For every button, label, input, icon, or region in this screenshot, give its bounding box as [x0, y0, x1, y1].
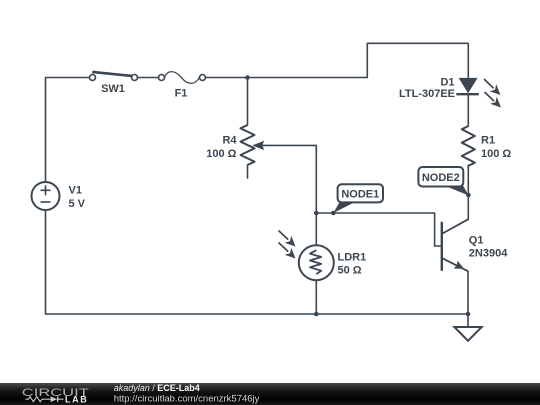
wire: R4 top lead — [247, 78, 249, 126]
junction dot at fuse/R4 — [245, 75, 250, 80]
wire: switch to fuse — [138, 77, 159, 79]
junction dot LDR bottom rail — [314, 312, 319, 317]
LED D1 emission arrow 1 — [484, 79, 501, 95]
resistor R1 — [462, 126, 475, 166]
emitter arrow of Q1 — [454, 261, 465, 269]
junction dot wiper/base wire — [314, 211, 319, 216]
wire: wiper to NODE1 column — [260, 145, 316, 213]
svg-text:Q1: Q1 — [469, 235, 484, 247]
svg-text:LDR1: LDR1 — [338, 252, 367, 264]
wire: R4 bottom dangling lead — [247, 165, 249, 178]
CircuitLab logo resistor-diode glyph — [25, 396, 63, 402]
wire: V1 bottom lead — [45, 210, 47, 314]
wire: bottom rail — [46, 313, 469, 315]
junction dot emitter/ground — [466, 312, 471, 317]
wiper arrow of R4 — [252, 141, 264, 150]
svg-text:akadylan / ECE-Lab4: akadylan / ECE-Lab4 — [114, 383, 200, 393]
LED D1 emission arrow 2 — [485, 92, 502, 108]
svg-text:LAB: LAB — [65, 394, 88, 404]
switch SW1 — [90, 72, 138, 81]
junction dot NODE2 anchor — [466, 193, 471, 198]
junction dot NODE1 anchor — [331, 211, 336, 216]
voltage source V1 — [32, 182, 60, 210]
svg-text:R4: R4 — [222, 135, 237, 147]
fuse F1 — [159, 72, 206, 84]
V1 plus sign — [41, 185, 51, 195]
V1 minus sign — [41, 201, 51, 203]
svg-text:100 Ω: 100 Ω — [206, 148, 236, 160]
svg-text:5 V: 5 V — [69, 198, 86, 210]
svg-text:NODE2: NODE2 — [422, 172, 460, 184]
photoresistor LDR1 — [299, 245, 334, 280]
LDR1 light arrow 2 — [279, 243, 296, 259]
svg-text:V1: V1 — [69, 185, 82, 197]
CircuitLab logo wordmark — [22, 387, 90, 405]
svg-text:2N3904: 2N3904 — [469, 248, 508, 260]
wire: NODE1 to Q1 base — [316, 213, 440, 246]
wire: LED cathode to R1 — [467, 95, 469, 127]
svg-text:50 Ω: 50 Ω — [338, 265, 362, 277]
node NODE1 flag — [333, 184, 383, 213]
potentiometer R4 — [241, 125, 255, 165]
svg-text:R1: R1 — [481, 135, 495, 147]
svg-text:D1: D1 — [440, 76, 454, 88]
svg-text:100 Ω: 100 Ω — [481, 148, 511, 160]
wire: fuse to top-right corner run — [206, 43, 469, 78]
LDR1 light arrow 1 — [279, 231, 296, 247]
wire: R1 bottom to collector node — [467, 165, 469, 220]
ground — [454, 314, 481, 341]
svg-text:SW1: SW1 — [101, 83, 125, 95]
svg-text:http://circuitlab.com/cnenzrk5: http://circuitlab.com/cnenzrk5746jy — [114, 394, 260, 405]
svg-text:F1: F1 — [175, 88, 188, 100]
transistor Q1 — [442, 219, 469, 271]
LED D1 — [456, 78, 479, 94]
svg-text:NODE1: NODE1 — [341, 189, 379, 201]
wire: V1 top to switch — [46, 78, 90, 183]
wire: LDR to bottom rail — [315, 280, 317, 314]
wire: NODE1 column to LDR — [315, 213, 317, 245]
node NODE2 flag — [418, 167, 468, 196]
svg-text:LTL-307EE: LTL-307EE — [399, 88, 455, 100]
wire: emitter to bottom rail — [467, 271, 469, 314]
footer bar — [0, 383, 540, 405]
